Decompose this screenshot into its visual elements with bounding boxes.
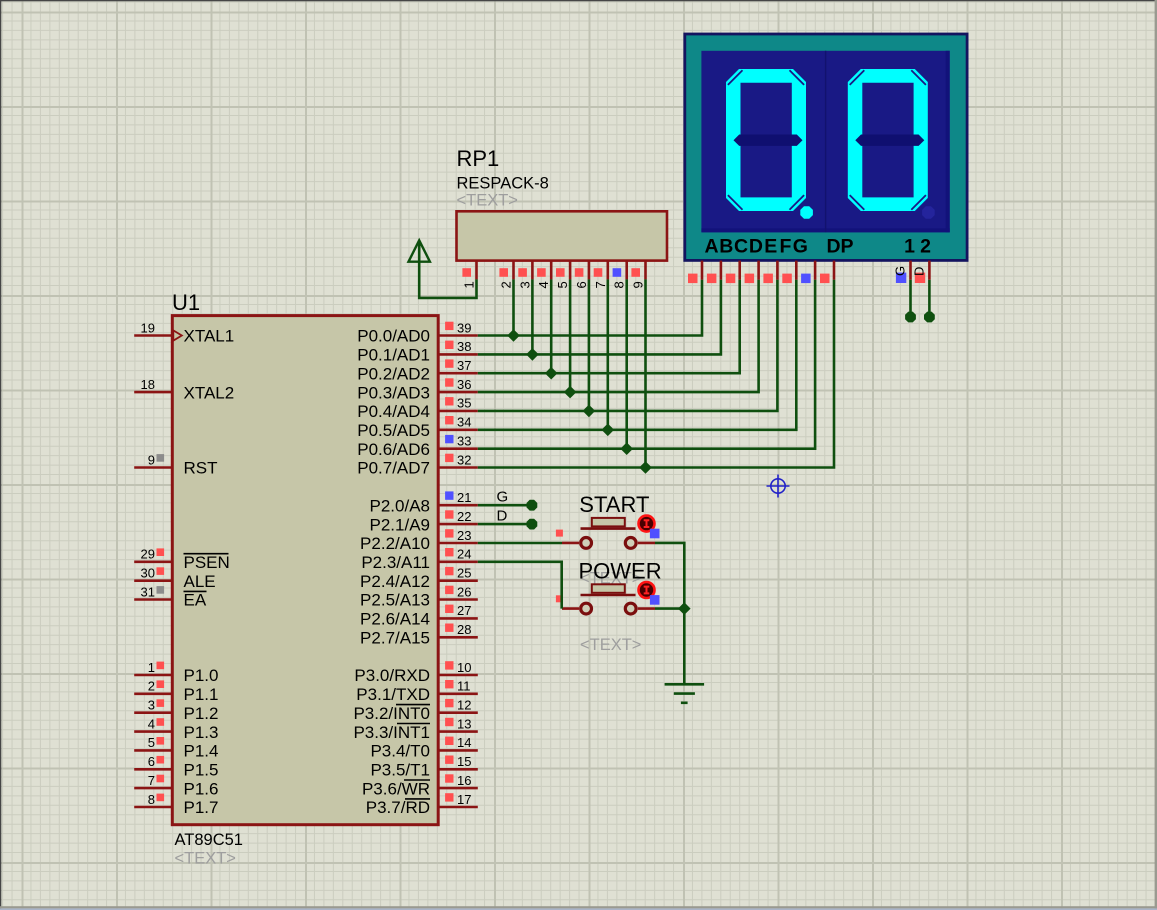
- U1 pin 9 RST: [134, 452, 217, 477]
- svg-text:25: 25: [457, 566, 471, 581]
- svg-text:P1.2: P1.2: [184, 704, 219, 723]
- svg-text:8: 8: [148, 792, 155, 807]
- U1 pin 27 P2.6/A14: [360, 603, 478, 628]
- svg-text:13: 13: [457, 716, 471, 731]
- svg-text:P0.3/AD3: P0.3/AD3: [357, 383, 430, 402]
- svg-text:P0.6/AD6: P0.6/AD6: [357, 440, 430, 459]
- svg-text:6: 6: [148, 754, 155, 769]
- svg-text:5: 5: [148, 735, 155, 750]
- RP1 pin 7: [593, 261, 608, 289]
- U1 pin 36 P0.3/AD3: [357, 377, 478, 402]
- wire P0.1 row to display pin B: [478, 280, 721, 355]
- svg-text:P1.1: P1.1: [184, 685, 219, 704]
- RP1 pin 6: [574, 261, 589, 289]
- svg-text:36: 36: [457, 377, 471, 392]
- U1 pin 24 P2.3/A11: [361, 547, 477, 572]
- svg-text:B: B: [719, 236, 733, 258]
- U1 pin 19 XTAL1: [134, 320, 234, 345]
- svg-text:3: 3: [148, 698, 155, 713]
- svg-text:P0.0/AD0: P0.0/AD0: [357, 327, 430, 346]
- junction P0.5 / RP1 pin 7: [602, 424, 615, 437]
- svg-text:1: 1: [148, 660, 155, 675]
- svg-text:P3.3/INT1: P3.3/INT1: [353, 723, 430, 742]
- U1 pin 12 P3.2/INT0: [353, 698, 477, 723]
- U1 pin 29 PSEN: [134, 547, 230, 572]
- svg-text:4: 4: [536, 281, 551, 288]
- wire RP1 pin 2 to P0.0 row: [512, 279, 515, 335]
- svg-text:P0.4/AD4: P0.4/AD4: [357, 402, 430, 421]
- svg-text:32: 32: [457, 452, 471, 467]
- U1 pin 11 P3.1/TXD: [356, 679, 478, 704]
- U1 pin 39 P0.0/AD0: [357, 320, 478, 345]
- svg-text:D: D: [497, 507, 508, 524]
- svg-text:<TEXT>: <TEXT>: [175, 850, 236, 868]
- svg-text:7: 7: [593, 281, 608, 288]
- U1 pin 23 P2.2/A10: [360, 528, 478, 553]
- wire RP1 pin 6 to P0.4 row: [588, 279, 591, 411]
- wire P0.5 row to display pin F: [478, 280, 797, 430]
- svg-text:23: 23: [457, 528, 471, 543]
- junction P0.7 / RP1 pin 9: [639, 461, 652, 474]
- svg-text:P0.1/AD1: P0.1/AD1: [357, 346, 430, 365]
- svg-text:19: 19: [141, 320, 155, 335]
- U1 pin 2 P1.1: [134, 679, 218, 704]
- svg-text:G: G: [793, 236, 808, 258]
- wire RP1 pin 8 to P0.6 row: [625, 279, 628, 448]
- U1 pin 17 P3.7/RD: [366, 792, 478, 817]
- display pin DP stub: [820, 261, 834, 284]
- svg-text:P1.0: P1.0: [184, 666, 219, 685]
- U1 pin 1 P1.0: [134, 660, 218, 685]
- svg-text:G: G: [893, 266, 908, 276]
- svg-text:1: 1: [904, 236, 915, 258]
- U1 pin 37 P0.2/AD2: [357, 358, 478, 383]
- svg-text:27: 27: [457, 603, 471, 618]
- U1 pin 35 P0.4/AD4: [357, 396, 478, 421]
- wire P0.7 row to display pin DP: [478, 280, 834, 468]
- svg-text:<TEXT>: <TEXT>: [580, 636, 641, 654]
- U1 pin 31 EA: [134, 584, 207, 609]
- svg-text:24: 24: [457, 547, 471, 562]
- svg-text:35: 35: [457, 396, 471, 411]
- 7-segment display module body: [685, 34, 967, 260]
- U1 pin 16 P3.6/WR: [362, 773, 478, 798]
- junction P0.6 / RP1 pin 8: [620, 442, 633, 455]
- U1 pin 32 P0.7/AD7: [357, 452, 478, 477]
- svg-text:<TEXT>: <TEXT>: [457, 192, 518, 210]
- svg-text:10: 10: [457, 660, 471, 675]
- power terminal (VCC arrow): [409, 240, 430, 261]
- display pin C stub: [726, 261, 740, 284]
- svg-text:P0.7/AD7: P0.7/AD7: [357, 459, 430, 478]
- svg-text:AT89C51: AT89C51: [175, 831, 243, 849]
- wire RP1 pin 7 to P0.5 row: [606, 279, 609, 429]
- U1 pin 4 P1.3: [134, 716, 218, 741]
- svg-text:XTAL2: XTAL2: [184, 383, 235, 402]
- svg-text:P1.3: P1.3: [184, 723, 219, 742]
- U1 pin 13 P3.3/INT1: [353, 716, 477, 741]
- resistor pack RP1 body: [457, 211, 668, 260]
- junction P0.1 / RP1 pin 3: [526, 348, 539, 361]
- svg-text:P2.5/A13: P2.5/A13: [360, 591, 430, 610]
- junction P0.3 / RP1 pin 5: [564, 386, 577, 399]
- svg-text:F: F: [780, 236, 792, 258]
- svg-text:34: 34: [457, 415, 471, 430]
- svg-text:2: 2: [148, 679, 155, 694]
- svg-text:6: 6: [574, 281, 589, 288]
- svg-text:28: 28: [457, 622, 471, 637]
- svg-text:P1.6: P1.6: [184, 779, 219, 798]
- pushbutton POWER: [556, 582, 660, 614]
- wire START to ground rail: [655, 543, 684, 609]
- svg-text:8: 8: [612, 281, 627, 288]
- svg-text:P2.4/A12: P2.4/A12: [360, 572, 430, 591]
- wire P2.2/A10 to START: [478, 542, 562, 545]
- svg-text:D: D: [911, 267, 926, 276]
- svg-text:26: 26: [457, 584, 471, 599]
- junction P0.0 / RP1 pin 2: [507, 329, 520, 342]
- svg-text:12: 12: [457, 698, 471, 713]
- svg-text:P0.5/AD5: P0.5/AD5: [357, 421, 430, 440]
- display segment labels ABCDEFG DP 1 2: [704, 236, 931, 258]
- svg-text:1: 1: [462, 281, 477, 288]
- svg-text:C: C: [734, 236, 748, 258]
- svg-text:39: 39: [457, 320, 471, 335]
- svg-text:P1.5: P1.5: [184, 761, 219, 780]
- wire RP1 pin 3 to P0.1 row: [531, 279, 534, 354]
- svg-text:RESPACK-8: RESPACK-8: [457, 175, 549, 193]
- U1 pin 34 P0.5/AD5: [357, 415, 478, 440]
- svg-text:XTAL1: XTAL1: [184, 327, 235, 346]
- wire P0.2 row to display pin C: [478, 280, 740, 373]
- svg-text:21: 21: [457, 490, 471, 505]
- U1 pin 5 P1.4: [134, 735, 218, 760]
- svg-text:G: G: [497, 489, 509, 506]
- svg-text:17: 17: [457, 792, 471, 807]
- svg-text:18: 18: [141, 377, 155, 392]
- svg-text:38: 38: [457, 339, 471, 354]
- svg-text:ALE: ALE: [184, 572, 216, 591]
- svg-text:P2.7/A15: P2.7/A15: [360, 629, 430, 648]
- RP1 pin 5: [555, 261, 570, 289]
- svg-text:P2.6/A14: P2.6/A14: [360, 610, 430, 629]
- svg-text:D: D: [749, 236, 763, 258]
- svg-text:37: 37: [457, 358, 471, 373]
- svg-text:P2.0/A8: P2.0/A8: [370, 496, 431, 515]
- U1 pin 25 P2.4/A12: [360, 566, 478, 591]
- pushbutton START: [556, 516, 660, 549]
- junction P0.2 / RP1 pin 4: [545, 367, 558, 380]
- microcontroller U1 body: [172, 316, 438, 825]
- ground symbol: [665, 684, 705, 703]
- wire from power terminal to RP1 pin 1: [419, 262, 476, 298]
- wire net D from P2.1/A9: [478, 519, 538, 530]
- svg-text:14: 14: [457, 735, 471, 750]
- svg-text:P3.6/WR: P3.6/WR: [362, 779, 430, 798]
- svg-text:P3.2/INT0: P3.2/INT0: [353, 704, 430, 723]
- RP1 pin 8: [612, 261, 627, 289]
- RP1 pin 3: [517, 261, 532, 289]
- wire P0.6 row to display pin G: [478, 280, 815, 449]
- wire ground rail down: [683, 609, 686, 685]
- svg-text:4: 4: [148, 716, 155, 731]
- U1 pin 22 P2.1/A9: [370, 509, 478, 534]
- wire POWER to ground rail: [655, 607, 684, 610]
- display common pin, net D: [911, 261, 934, 323]
- svg-text:15: 15: [457, 754, 471, 769]
- display pin F stub: [782, 261, 796, 284]
- svg-text:DP: DP: [826, 236, 853, 258]
- svg-text:U1: U1: [172, 290, 200, 315]
- svg-text:29: 29: [141, 547, 155, 562]
- digit 2 showing 0: [848, 69, 935, 219]
- svg-text:P3.5/T1: P3.5/T1: [370, 761, 430, 780]
- display common pin, net G: [893, 261, 916, 323]
- U1 pin 14 P3.4/T0: [370, 735, 477, 760]
- svg-text:P3.1/TXD: P3.1/TXD: [356, 685, 430, 704]
- svg-text:16: 16: [457, 773, 471, 788]
- U1 pin 10 P3.0/RXD: [354, 660, 477, 685]
- U1 pin 3 P1.2: [134, 698, 218, 723]
- RP1 pin 4: [536, 261, 551, 289]
- U1 pin 6 P1.5: [134, 754, 218, 779]
- svg-text:P1.4: P1.4: [184, 742, 219, 761]
- svg-text:9: 9: [631, 281, 646, 288]
- display pin E stub: [763, 261, 777, 284]
- svg-text:7: 7: [148, 773, 155, 788]
- origin marker: [767, 475, 790, 498]
- wire RP1 pin 9 to P0.7 row: [644, 279, 647, 467]
- wire P0.4 row to display pin E: [478, 280, 778, 411]
- U1 pin 33 P0.6/AD6: [357, 434, 478, 459]
- svg-text:POWER: POWER: [579, 559, 662, 584]
- U1 pin 38 P0.1/AD1: [357, 339, 478, 364]
- U1 pin 8 P1.7: [134, 792, 218, 817]
- wire P2.3/A11 to POWER: [478, 562, 562, 609]
- svg-text:33: 33: [457, 434, 471, 449]
- RP1 pin 2: [499, 261, 514, 289]
- display pin A stub: [688, 261, 702, 284]
- wire RP1 pin 4 to P0.2 row: [550, 279, 553, 373]
- svg-text:E: E: [764, 236, 777, 258]
- U1 pin 21 P2.0/A8: [370, 490, 478, 515]
- junction at ground rail: [678, 602, 691, 615]
- svg-text:P3.4/T0: P3.4/T0: [370, 742, 430, 761]
- U1 pin 30 ALE: [134, 566, 215, 591]
- svg-text:3: 3: [517, 281, 532, 288]
- display pin D stub: [745, 261, 759, 284]
- U1 pin 18 XTAL2: [134, 377, 234, 402]
- svg-text:P2.1/A9: P2.1/A9: [370, 515, 431, 534]
- svg-text:RST: RST: [184, 459, 218, 478]
- wire net G from P2.0/A8: [478, 500, 538, 511]
- svg-text:30: 30: [141, 566, 155, 581]
- svg-text:P2.2/A10: P2.2/A10: [360, 534, 430, 553]
- svg-text:P3.7/RD: P3.7/RD: [366, 798, 430, 817]
- U1 pin 15 P3.5/T1: [370, 754, 477, 779]
- svg-text:22: 22: [457, 509, 471, 524]
- svg-text:5: 5: [555, 281, 570, 288]
- svg-text:P3.0/RXD: P3.0/RXD: [354, 666, 430, 685]
- svg-text:PSEN: PSEN: [184, 553, 230, 572]
- svg-text:31: 31: [141, 584, 155, 599]
- RP1 pin 1: [462, 261, 477, 289]
- U1 pin 7 P1.6: [134, 773, 218, 798]
- svg-text:11: 11: [457, 679, 471, 694]
- svg-text:P1.7: P1.7: [184, 798, 219, 817]
- svg-text:2: 2: [920, 236, 931, 258]
- svg-text:START: START: [579, 492, 649, 517]
- U1 pin 26 P2.5/A13: [360, 584, 478, 609]
- svg-text:P0.2/AD2: P0.2/AD2: [357, 364, 430, 383]
- RP1 pin 9: [631, 261, 646, 289]
- svg-text:P2.3/A11: P2.3/A11: [361, 553, 430, 572]
- U1 pin 28 P2.7/A15: [360, 622, 478, 647]
- wire RP1 pin 5 to P0.3 row: [569, 279, 572, 392]
- wire P0.3 row to display pin D: [478, 280, 759, 392]
- junction P0.4 / RP1 pin 6: [583, 405, 596, 418]
- display pin B stub: [707, 261, 721, 284]
- svg-text:9: 9: [148, 452, 155, 467]
- svg-text:A: A: [704, 236, 718, 258]
- svg-text:EA: EA: [184, 591, 207, 610]
- wire P0.0 row to display pin A: [478, 280, 702, 336]
- display pin G stub: [801, 261, 815, 284]
- digit 1 showing 0 with lit DP: [726, 69, 813, 219]
- svg-text:2: 2: [499, 281, 514, 288]
- svg-text:RP1: RP1: [457, 146, 500, 171]
